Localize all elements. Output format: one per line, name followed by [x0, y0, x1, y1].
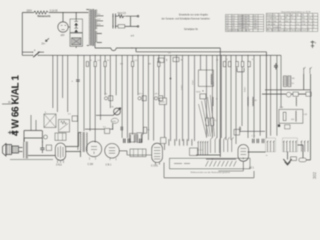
voltage selector switch	[113, 14, 116, 29]
svg-text:C B 1: C B 1	[106, 164, 112, 166]
mains switch on bus	[33, 52, 40, 58]
coil box right-mid second	[248, 97, 254, 106]
tube data table right	[266, 13, 318, 31]
svg-text:der Geraete- und Schaltplan-Nu: der Geraete- und Schaltplan-Nummer beste…	[162, 17, 211, 20]
svg-text:50k: 50k	[291, 119, 294, 121]
field coil winding	[23, 142, 27, 159]
wire bus drop lines right group	[165, 55, 282, 150]
resistor box row mid-right 3	[236, 62, 239, 67]
wire mains top	[22, 12, 88, 14]
small cap above	[121, 127, 123, 131]
svg-text:0,1A 30: 0,1A 30	[50, 10, 59, 13]
svg-text:8000: 8000	[245, 86, 247, 92]
wire T3 to T4	[119, 151, 151, 155]
switch boxes below coils	[130, 149, 146, 157]
filter block box	[70, 19, 83, 33]
label 10 with stub	[2, 103, 13, 105]
svg-text:d c b a: d c b a	[197, 150, 204, 152]
wire rail B vertical	[265, 52, 267, 138]
terminal blob	[278, 124, 280, 127]
switch arrows right top	[304, 67, 312, 74]
junction dot rail A	[131, 47, 132, 48]
oval label	[111, 118, 118, 123]
svg-text:Alle Spannungen gegen Chassis: Alle Spannungen gegen Chassis gemessen 3…	[267, 29, 310, 32]
svg-text:Wellenschalter von der Skalens: Wellenschalter von der Skalenseite geseh…	[191, 171, 230, 174]
rotated value label 2	[193, 79, 195, 85]
ground chassis arrow	[287, 152, 289, 160]
label 2V heater arrow	[46, 38, 50, 41]
wire bus drop lines mid group	[84, 55, 159, 142]
tube ECH oval	[152, 143, 163, 162]
loudspeaker cone	[3, 144, 7, 157]
wire rail B left stub	[135, 48, 137, 52]
box left of right coil bank	[161, 138, 167, 144]
wire rectifier anode drop	[62, 13, 64, 22]
svg-text:2M: 2M	[120, 64, 123, 66]
wires bottom right	[248, 74, 311, 160]
bottom switch frame	[170, 158, 251, 169]
resistor box row mid-right 2	[228, 62, 231, 67]
parts table left	[226, 15, 264, 32]
svg-text:C 2M: C 2M	[88, 164, 94, 166]
second switch contact group	[211, 137, 234, 153]
electrolytic C1	[74, 19, 78, 27]
rotated value label 3	[213, 80, 215, 86]
svg-text:3W: 3W	[254, 28, 257, 30]
band switch contacts	[198, 141, 209, 155]
wire lower left	[24, 131, 42, 149]
label box right 1	[293, 92, 298, 96]
wire right h-lines	[262, 90, 310, 94]
title text 4W66K/AL1	[11, 75, 22, 136]
wire filter top to mains	[75, 13, 77, 20]
field coil choke hatched	[70, 33, 83, 46]
IF coil pair left of ECH	[129, 133, 135, 142]
speaker magnet coil	[12, 146, 19, 153]
resistor box m	[291, 157, 297, 161]
rotated value label 4	[245, 86, 247, 92]
svg-text:Netzanschl.: Netzanschl.	[38, 15, 52, 18]
tube CY oval	[238, 145, 249, 162]
tube CBC1	[86, 141, 101, 156]
small box pair below IF	[200, 94, 206, 99]
svg-text:4 W 66 K/AL 1: 4 W 66 K/AL 1	[11, 75, 22, 136]
variable capacitor with arrow	[114, 108, 121, 115]
coil bank left	[130, 134, 142, 143]
label box right 2	[306, 92, 311, 96]
output transformer	[80, 132, 87, 152]
interference capacitor box	[118, 25, 125, 28]
capacitor pair above left	[124, 139, 126, 144]
cap pair right of CY	[253, 139, 259, 143]
mains plug pins	[137, 26, 139, 28]
resistor in frame	[283, 112, 286, 120]
grid resistor box left of tube	[46, 145, 51, 151]
coil in frame	[295, 111, 298, 122]
switch wafer box 2	[283, 138, 298, 152]
mains switch second pole wire	[22, 51, 44, 53]
rectifier tube AZ1	[58, 22, 68, 32]
loudspeaker frame	[6, 145, 12, 155]
wire switch bottom	[196, 154, 220, 156]
svg-text:Gesamtstromaufnahme ca. 30 W: Gesamtstromaufnahme ca. 30 W	[281, 11, 310, 14]
svg-text:C l l: C l l	[252, 136, 256, 138]
svg-text:2500: 2500	[193, 79, 195, 85]
wire rail A vertical	[219, 48, 221, 157]
svg-text:1M: 1M	[148, 64, 151, 66]
junction dot below IF	[202, 90, 203, 91]
small boxes below frame	[285, 125, 290, 129]
small box row left cluster	[72, 116, 77, 121]
node junction dots on bus	[77, 55, 267, 56]
svg-text:2 AL1: 2 AL1	[56, 163, 63, 166]
svg-text:d2V: d2V	[61, 35, 66, 37]
svg-text:xxHz: xxHz	[112, 121, 116, 123]
trimmer cluster B	[138, 97, 141, 100]
small circle right	[286, 92, 291, 97]
resistor hatched boxes right	[283, 76, 286, 87]
switch box below right coils	[190, 148, 198, 156]
electrolytic C2	[74, 27, 78, 32]
wire plug lower	[116, 25, 138, 27]
resistor box row mid-right 1	[223, 62, 226, 67]
svg-text:Schaltplan Nr.: Schaltplan Nr.	[184, 28, 199, 31]
antenna terminal	[311, 41, 315, 49]
wire filter to choke	[75, 33, 77, 49]
wire bottom long	[164, 163, 254, 178]
wire bus drop lines left group	[53, 55, 78, 150]
big frame right	[279, 109, 303, 123]
rotated value label 1	[182, 84, 184, 90]
svg-text:Ersatzteile nur unter Angabe: Ersatzteile nur unter Angabe	[179, 14, 209, 17]
switch frame contact arrows	[174, 161, 236, 167]
main bus wire	[22, 54, 281, 56]
tube CBF	[105, 144, 120, 159]
wire left bus vertical	[21, 13, 23, 56]
wire lower mid-right	[240, 130, 265, 132]
power transformer T1	[89, 9, 97, 46]
resistor boxes mid low	[206, 118, 209, 126]
wire fuse to plug	[125, 16, 137, 26]
small resistor above	[144, 127, 147, 133]
trimmer cluster C	[154, 97, 157, 100]
svg-text:220V: 220V	[27, 11, 33, 13]
wide box above output tube	[55, 133, 66, 140]
svg-text:CBL1: CBL1	[267, 21, 273, 23]
trimmer cluster A	[104, 97, 107, 100]
component above T2	[105, 129, 110, 134]
wire output tube anode	[66, 133, 82, 147]
transformer taps	[86, 10, 103, 46]
capacitor Ck	[40, 148, 44, 153]
small circle left of tube	[44, 135, 48, 139]
wire rectifier to filter	[68, 26, 70, 28]
component boxes below bus right	[158, 58, 164, 63]
capacitor pair above right	[140, 139, 142, 144]
wire bracket mid	[237, 68, 244, 72]
svg-text:Skala: Skala	[160, 101, 166, 103]
wire bottom mid	[206, 158, 236, 160]
svg-text:2V~: 2V~	[42, 44, 47, 46]
wire stubs to cluster	[31, 115, 36, 131]
svg-text:5000: 5000	[182, 84, 184, 90]
resistor R heater zigzag	[34, 11, 48, 14]
resistor box row mid-right 4	[241, 62, 244, 67]
page number	[312, 171, 317, 179]
trafo box with X upper	[44, 114, 56, 128]
coil column right upper	[295, 97, 298, 106]
cap with label right top	[274, 63, 278, 69]
svg-text:1M: 1M	[292, 78, 295, 80]
wire rail A stub	[94, 42, 96, 48]
resistor boxes on verticals	[86, 62, 160, 67]
wire bottom left	[10, 159, 53, 161]
IF transformer frame mid	[198, 70, 213, 86]
coil column mid low	[211, 97, 214, 106]
wire fan to band switch	[199, 95, 215, 137]
svg-text:Sich 0,5: Sich 0,5	[118, 13, 127, 15]
Skala label box	[159, 98, 166, 105]
electrolytic on x77.9	[76, 80, 80, 82]
pill choke	[299, 158, 307, 162]
svg-text:Cges 4500 Summe alle W: Cges 4500 Summe alle W	[226, 30, 250, 32]
wire mid cluster	[85, 115, 114, 129]
svg-text:1200: 1200	[213, 80, 215, 86]
switch wafer box 1	[266, 138, 276, 152]
wire speaker connections	[19, 138, 81, 157]
wire tube pin stubs	[156, 161, 244, 171]
switch wafer group 3	[301, 141, 309, 152]
junction diamond x170	[170, 78, 172, 80]
component above CY	[234, 129, 240, 135]
phone jack symbol	[8, 131, 15, 134]
resistor box row mid-right 5	[248, 62, 251, 67]
wire rail A	[95, 48, 220, 51]
hum pot box with zigzag	[59, 120, 70, 133]
svg-text:C CH1: C CH1	[151, 166, 159, 168]
svg-text:Tr: Tr	[45, 112, 47, 114]
fuse Si	[116, 15, 125, 18]
wire rail B	[136, 51, 266, 53]
coil bank right	[169, 139, 193, 145]
output tube CBL1	[55, 143, 65, 163]
svg-text:302: 302	[312, 171, 317, 179]
